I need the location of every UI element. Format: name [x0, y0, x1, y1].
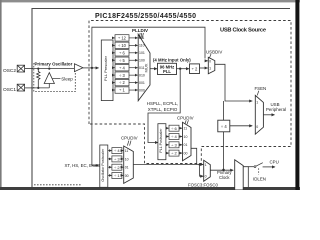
FSEN mux — [255, 95, 263, 134]
svg-text:XT, HS, EC, ECIO: XT, HS, EC, ECIO — [65, 163, 101, 168]
svg-text:00: 00 — [184, 152, 188, 156]
wire down to oscillator postscaler — [92, 68, 99, 165]
node clock rail junction — [199, 163, 201, 165]
svg-text:0: 0 — [209, 60, 211, 64]
wire div2 to USBDIV input 1 — [200, 67, 208, 69]
buffer triangle (osc output) — [74, 64, 83, 72]
wire down to FOSC mux input 0 — [200, 165, 204, 177]
svg-text:Peripheral: Peripheral — [266, 107, 286, 112]
divider ÷3 box — [169, 142, 179, 148]
svg-text:110: 110 — [139, 44, 145, 48]
svg-text:OSC2: OSC2 — [3, 68, 16, 74]
FSEN select line — [257, 91, 259, 96]
wire into USBDIV input 0 — [205, 60, 208, 62]
sleep control line — [53, 78, 61, 80]
svg-text:1: 1 — [209, 67, 211, 71]
svg-text:÷ 12: ÷ 12 — [118, 36, 127, 41]
PLLDIV divider boxes and arrows — [115, 35, 129, 94]
PLL Postscaler box — [158, 124, 166, 160]
label Primary Oscillator — [35, 61, 75, 66]
svg-text:÷ 6: ÷ 6 — [171, 126, 177, 131]
divider ÷6 box — [169, 125, 179, 131]
FOSC mux — [204, 160, 211, 181]
divider ÷1 box — [112, 173, 122, 179]
svg-text:HSPLL, ECPLL,: HSPLL, ECPLL, — [147, 101, 178, 106]
image frame bottom border — [0, 187, 300, 190]
CPUDIV select lines left — [127, 141, 131, 146]
divider ÷4 box — [115, 65, 129, 71]
wire mux to 96MHz PLL — [150, 68, 157, 70]
svg-text:10: 10 — [125, 157, 129, 161]
resistor feedback — [37, 69, 40, 88]
svg-text:CPU: CPU — [270, 160, 279, 165]
div4 box — [218, 120, 230, 132]
node dot osc top-mid — [48, 68, 50, 70]
svg-text:÷ 3: ÷ 3 — [119, 73, 125, 78]
arrows prescaler to dividers — [113, 38, 115, 90]
wire div4 down to primary clock rail — [223, 132, 225, 170]
svg-text:001: 001 — [139, 81, 145, 85]
svg-text:÷ 4: ÷ 4 — [119, 65, 125, 70]
svg-text:11: 11 — [184, 127, 188, 131]
svg-text:0: 0 — [256, 125, 258, 129]
svg-text:010: 010 — [139, 73, 145, 77]
wire OSC2 to chip — [25, 68, 33, 70]
wire CPUDIV left to FOSC mux input 0 — [133, 164, 203, 166]
divider ÷4 box — [169, 134, 179, 140]
wire to CPU — [263, 166, 275, 168]
wire OSC1 to chip — [25, 87, 33, 89]
svg-text:÷ 6: ÷ 6 — [119, 50, 125, 55]
svg-text:÷ 2: ÷ 2 — [114, 165, 120, 170]
svg-text:101: 101 — [139, 51, 145, 55]
wire FSEN to USB peripheral — [263, 114, 274, 116]
svg-text:XTPLL, ECPIO: XTPLL, ECPIO — [148, 107, 178, 112]
wire div4 to FSEN input 0 — [230, 125, 252, 127]
wire PLL branch down to PLL postscaler — [148, 69, 180, 143]
svg-text:111: 111 — [139, 36, 144, 40]
svg-text:PLL Prescaler: PLL Prescaler — [103, 55, 108, 81]
svg-text:÷ 2: ÷ 2 — [171, 151, 177, 156]
image frame top border — [0, 0, 300, 2]
divider ÷2 box — [115, 79, 129, 85]
divider ÷5 box — [115, 57, 129, 63]
divider ÷12 box — [115, 35, 129, 41]
image frame right border — [295, 0, 299, 190]
PLLDIV mux — [138, 34, 150, 101]
wire up to USB direct path — [92, 27, 205, 68]
wire USBDIV output to FSEN input 1 — [215, 64, 252, 101]
svg-text:10: 10 — [184, 135, 188, 139]
USBDIV select line — [210, 54, 211, 58]
96 MHz PLL box — [158, 63, 177, 74]
divider ÷3 box — [112, 156, 122, 162]
svg-text:÷ 1: ÷ 1 — [114, 173, 120, 178]
wire PLL to div2 — [177, 68, 189, 70]
chip boundary (PIC18F device outline) — [32, 9, 290, 188]
svg-text:÷ 4: ÷ 4 — [171, 134, 177, 139]
primary oscillator dashed box — [34, 64, 76, 92]
svg-text:11: 11 — [125, 149, 129, 153]
svg-text:100: 100 — [139, 59, 145, 63]
div2 box — [190, 64, 200, 74]
divider ÷2 box — [112, 164, 122, 170]
node main osc junction — [91, 67, 93, 69]
CPUDIV mux right — [183, 122, 192, 161]
svg-text:1: 1 — [205, 163, 207, 167]
Oscillator Postscaler box — [100, 145, 108, 187]
wire osc output to PLL prescaler — [83, 67, 99, 69]
divider ÷1 box — [115, 87, 129, 93]
node dot osc top-left — [37, 68, 39, 70]
wire OSC2 top rail — [32, 68, 74, 70]
dashed USB Clock Source region — [89, 21, 291, 164]
svg-text:IDLEN: IDLEN — [253, 176, 266, 181]
svg-text:000: 000 — [139, 88, 145, 92]
svg-text:÷ 3: ÷ 3 — [114, 157, 120, 162]
svg-text:USBDIV: USBDIV — [206, 49, 222, 54]
divider ÷6 box — [115, 50, 129, 56]
node after PLL — [179, 68, 181, 70]
pin OSC2 symbol — [17, 65, 24, 72]
oscillator postscaler dividers — [112, 148, 122, 179]
divider ÷10 box — [115, 42, 129, 48]
svg-text:CPUDIV: CPUDIV — [177, 115, 194, 120]
svg-text:Oscillator Postscaler: Oscillator Postscaler — [101, 148, 105, 182]
wire system mux output — [243, 167, 248, 187]
node on primary clock rail — [222, 169, 225, 172]
wire OSC1 bottom rail — [32, 87, 49, 89]
svg-text:÷ 1: ÷ 1 — [119, 88, 125, 93]
svg-text:÷ 3: ÷ 3 — [171, 142, 177, 147]
divider ÷2 box — [169, 150, 179, 156]
svg-text:0: 0 — [205, 175, 207, 179]
svg-text:USB Clock Source: USB Clock Source — [220, 28, 266, 34]
PLL postscaler dividers — [169, 125, 179, 156]
wire CPUDIV right to FOSC mux input 1 — [191, 148, 197, 164]
system clock mux (cut off) — [235, 160, 244, 190]
svg-text:÷ 5: ÷ 5 — [119, 58, 125, 63]
divider ÷3 box — [115, 72, 129, 78]
CPUDIV mux left — [124, 146, 134, 183]
svg-text:OSC1: OSC1 — [3, 87, 16, 93]
svg-text:CPUDIV: CPUDIV — [121, 136, 138, 141]
wire branch down to div4 — [223, 101, 225, 120]
CPUDIV select lines right — [185, 120, 189, 124]
svg-text:MUX: MUX — [143, 63, 148, 72]
divider ÷4 box — [112, 148, 122, 154]
svg-text:01: 01 — [125, 166, 129, 170]
pin OSC1 symbol — [17, 84, 24, 91]
svg-text:÷ 4: ÷ 4 — [221, 124, 227, 129]
svg-text:PLLDIV: PLLDIV — [132, 28, 148, 33]
svg-text:Sleep: Sleep — [61, 77, 73, 82]
svg-text:÷ 2: ÷ 2 — [119, 80, 125, 85]
svg-text:÷ 10: ÷ 10 — [118, 43, 127, 48]
svg-text:FOSC3:FOSC0: FOSC3:FOSC0 — [188, 183, 218, 188]
PLL Prescaler box — [101, 40, 113, 101]
inverter triangle (oscillator amp) — [44, 73, 54, 84]
image frame left border — [0, 0, 2, 190]
svg-text:PLL Postscaler: PLL Postscaler — [159, 128, 163, 153]
svg-text:FSEN: FSEN — [255, 86, 267, 91]
svg-text:(4 MHz Input Only): (4 MHz Input Only) — [153, 57, 191, 62]
svg-text:PIC18F2455/2550/4455/4550: PIC18F2455/2550/4455/4550 — [95, 13, 196, 20]
svg-text:00: 00 — [125, 174, 129, 178]
svg-text:÷ 2: ÷ 2 — [192, 67, 198, 72]
svg-text:Clock: Clock — [219, 175, 230, 180]
svg-text:1: 1 — [256, 100, 258, 104]
IDLEN switch — [254, 166, 256, 168]
wire FOSC mux to system mux — [210, 169, 233, 171]
svg-text:PLL: PLL — [163, 69, 171, 74]
svg-text:Primary Oscillator: Primary Oscillator — [35, 62, 73, 67]
PLLDIV select bus lines — [139, 33, 143, 39]
arrows dividers to PLLDIV mux — [129, 38, 138, 90]
USBDIV mux — [208, 57, 215, 74]
wire inverter to bottom rail — [48, 84, 50, 88]
secondary oscillator dashed box top edge (cut off) — [34, 184, 82, 186]
svg-text:01: 01 — [184, 143, 188, 147]
svg-text:÷ 4: ÷ 4 — [114, 148, 120, 153]
node dot osc bottom — [37, 87, 39, 89]
